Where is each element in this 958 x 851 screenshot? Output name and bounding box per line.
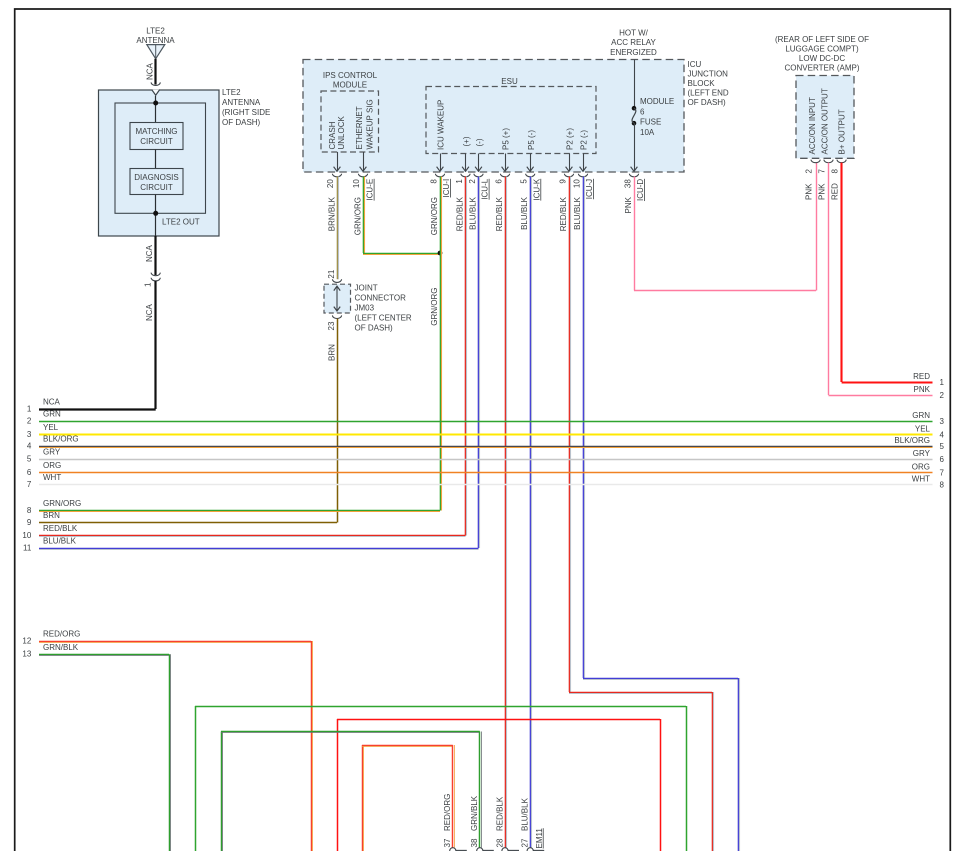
wire 13 GRN/BLK bus [39,654,171,851]
svg-text:7: 7 [940,469,945,478]
svg-text:9: 9 [27,518,32,527]
svg-text:NCA: NCA [145,303,154,321]
JM03 internal bus arrow [334,286,340,311]
svg-text:13: 13 [22,650,31,659]
fuse MODULE 6 FUSE 10A [632,106,637,126]
wire GRN/BLK bridge to EM11 pin 38 [221,732,482,851]
svg-text:(+): (+) [462,136,471,146]
pin numbers converter [805,169,840,174]
node junction bottom [153,211,158,216]
labels converter pins [808,88,847,154]
svg-text:NCA: NCA [145,244,154,262]
connector hook pin 9 [564,174,573,177]
label JM03 [355,284,412,333]
EM11 pin 37 terminal [450,848,467,851]
wire 5 GRY bus [39,459,933,461]
wire GRN/ORG pin 10 to junction [363,177,440,255]
pin exit arrow ICU wakeup [437,154,444,172]
svg-text:RED/BLK: RED/BLK [495,796,504,831]
svg-text:RED/ORG: RED/ORG [443,794,452,831]
wire 11 BLU/BLK bus [39,549,479,550]
label hot w acc relay energized [610,28,657,57]
wire BLU/BLK pin 2 to bus [479,177,480,549]
svg-text:7: 7 [27,480,32,489]
svg-text:ICU WAKEUP: ICU WAKEUP [437,100,446,150]
svg-text:8: 8 [430,179,439,184]
svg-text:DIAGNOSIS: DIAGNOSIS [134,173,178,182]
svg-text:ICU-E: ICU-E [366,179,375,201]
svg-text:9: 9 [559,179,568,184]
svg-text:GRN/ORG: GRN/ORG [430,197,439,235]
connector hook converter pin 7 [824,160,833,163]
label LTE2 antenna location [222,88,270,127]
svg-text:YEL: YEL [915,425,931,434]
connector hook pin 8 [435,174,444,177]
wire internal antenna top [155,96,157,123]
svg-text:11: 11 [23,543,32,552]
svg-text:38: 38 [470,838,479,847]
svg-text:ORG: ORG [912,463,930,472]
svg-text:B+ OUTPUT: B+ OUTPUT [838,109,847,154]
wire fuse feed [634,60,636,109]
svg-text:WHT: WHT [912,475,930,484]
svg-text:ICU-J: ICU-J [585,179,594,199]
svg-text:12: 12 [22,636,31,645]
connector hook pin 5 [526,174,535,177]
connector hook pin 38 [629,174,638,177]
svg-text:ANTENNA: ANTENNA [222,98,261,107]
svg-text:PNK: PNK [805,183,814,200]
pin exit arrow ethernet [360,152,367,171]
svg-text:CONNECTOR: CONNECTOR [355,294,407,303]
module LTE2 antenna inner box [115,103,206,213]
svg-text:10: 10 [573,179,582,188]
svg-text:6: 6 [495,179,504,184]
svg-text:1: 1 [27,404,32,413]
svg-text:P5 (-): P5 (-) [527,130,536,150]
svg-text:ANTENNA: ANTENNA [136,36,175,45]
connector hook antenna lead [151,82,160,85]
svg-text:6: 6 [640,107,645,116]
svg-text:GRN/ORG: GRN/ORG [430,288,439,326]
node junction GRN/ORG [438,251,443,256]
connector hook pin 6 [500,174,509,177]
svg-text:GRN/BLK: GRN/BLK [43,643,79,652]
pin exit arrow P2 plus [566,154,573,172]
antenna LTE2 title [136,27,175,46]
svg-text:LOW DC-DC: LOW DC-DC [799,54,845,63]
svg-text:3: 3 [27,430,32,439]
wire colour labels below ICU box [328,196,634,235]
svg-text:5: 5 [940,442,945,451]
svg-text:GRN/BLK: GRN/BLK [470,795,479,831]
svg-text:3: 3 [940,417,945,426]
svg-text:10A: 10A [640,128,655,137]
svg-text:IPS CONTROL: IPS CONTROL [323,71,378,80]
label ICU junction block [688,60,729,107]
svg-text:BLOCK: BLOCK [688,79,716,88]
svg-text:BRN: BRN [43,511,60,520]
label pin ethernet wakeup sig [355,99,374,149]
wire NCA below box [154,236,156,275]
svg-text:PNK: PNK [624,196,633,213]
wire RED/BLK pin 9 off page [569,177,714,851]
connector hook JM03 pin 21 [332,279,341,282]
svg-text:OF DASH): OF DASH) [688,98,727,107]
svg-text:ACC RELAY: ACC RELAY [611,38,656,47]
svg-text:GRN: GRN [43,410,61,419]
wire NCA antenna lead [154,59,156,85]
svg-text:WAKEUP SIG: WAKEUP SIG [365,99,374,149]
module ICU junction block [303,60,684,173]
svg-text:4: 4 [940,431,945,440]
svg-text:ESU: ESU [501,77,518,86]
svg-text:MATCHING: MATCHING [135,127,177,136]
svg-text:CONVERTER (AMP): CONVERTER (AMP) [785,64,860,73]
wire 9 BRN bus [39,522,337,524]
svg-text:BLK/ORG: BLK/ORG [43,435,79,444]
svg-text:RED: RED [913,372,930,381]
svg-text:JUNCTION: JUNCTION [688,70,729,79]
EM11 pin 28 terminal [502,848,519,851]
svg-text:10: 10 [352,179,361,188]
wire colour labels converter [805,183,840,200]
svg-text:BLU/BLK: BLU/BLK [521,797,530,831]
label matching circuit [135,127,177,146]
wire 1 NCA bus [39,408,156,410]
svg-text:8: 8 [831,169,840,174]
svg-text:(REAR OF LEFT SIDE OF: (REAR OF LEFT SIDE OF [775,35,869,44]
svg-text:RED/BLK: RED/BLK [495,196,504,231]
wire GRN/ORG pin 8 to bus [441,177,442,511]
pin exit arrow P5 plus [502,154,509,172]
svg-text:OF DASH): OF DASH) [222,118,261,127]
svg-text:(LEFT CENTER: (LEFT CENTER [355,314,412,323]
svg-text:ACC/ON INPUT: ACC/ON INPUT [808,97,817,154]
connector C1 lower half [151,278,160,281]
svg-text:HOT W/: HOT W/ [619,28,649,37]
wire RED B+ output [842,163,933,383]
svg-text:MODULE: MODULE [333,80,367,89]
svg-text:ORG: ORG [43,461,61,470]
connector hook converter pin 8 [837,160,846,163]
svg-text:8: 8 [940,481,945,490]
svg-text:NCA: NCA [43,398,61,407]
svg-text:ETHERNET: ETHERNET [355,106,364,149]
module ESU inner box [426,87,596,154]
svg-text:RED/BLK: RED/BLK [456,196,465,231]
svg-text:EM11: EM11 [535,828,544,849]
svg-text:5: 5 [520,179,529,184]
EM11 pin 38 terminal [477,848,494,851]
svg-text:4: 4 [27,441,32,450]
svg-text:ICU-L: ICU-L [481,178,490,199]
wire BLU/BLK pin 5 to EM11 pin 27 [531,177,532,848]
svg-text:ICU-D: ICU-D [636,179,645,201]
svg-text:LTE2: LTE2 [222,88,241,97]
svg-text:P5 (+): P5 (+) [501,128,510,150]
svg-text:GRN/ORG: GRN/ORG [43,499,81,508]
wire RED/BLK pin 6 to EM11 pin 28 [506,177,507,848]
svg-text:RED/BLK: RED/BLK [559,196,568,231]
svg-text:(LEFT END: (LEFT END [688,89,729,98]
svg-text:BRN/BLK: BRN/BLK [328,196,337,231]
wire RED bridge off page [337,719,661,851]
svg-text:6: 6 [27,468,32,477]
connector hook converter pin 2 [811,160,820,163]
wire 7 WHT bus [39,484,933,486]
svg-text:23: 23 [327,321,336,330]
svg-text:ICU-I: ICU-I [442,179,451,198]
svg-text:OF DASH): OF DASH) [355,324,394,333]
svg-text:2: 2 [805,169,814,174]
svg-text:PNK: PNK [818,183,827,200]
wire BRN/BLK pin 20 to JM03 [338,177,339,280]
svg-text:ICU: ICU [688,60,702,69]
joint connector JM03 [324,284,351,313]
svg-text:JM03: JM03 [355,304,375,313]
svg-text:2: 2 [468,179,477,184]
wire PNK acc on output [829,163,933,396]
wire internal below diagnosis [155,195,157,237]
svg-text:10: 10 [22,531,31,540]
svg-text:6: 6 [940,455,945,464]
svg-text:1: 1 [455,179,464,184]
label DC-DC converter title [775,35,869,73]
wire 6 ORG bus [39,472,933,474]
svg-text:8: 8 [27,506,32,515]
wire PNK fuse to converter [634,163,817,291]
connector C1 upper half [151,273,160,276]
svg-text:JOINT: JOINT [355,284,378,293]
wire 10 RED/BLK bus [39,536,466,537]
svg-text:P2 (+): P2 (+) [565,128,574,150]
svg-text:2: 2 [27,416,32,425]
svg-text:(RIGHT SIDE: (RIGHT SIDE [222,108,270,117]
svg-text:ACC/ON OUTPUT: ACC/ON OUTPUT [820,88,829,154]
svg-text:LTE2: LTE2 [146,27,165,36]
wire 8 GRN/ORG bus [39,511,440,512]
wire BLU/BLK pin 10 off page [583,177,740,851]
pin numbers EM11 [443,838,530,847]
label pin crash unlock [328,115,346,149]
pin exit arrow plus [462,154,469,172]
svg-text:27: 27 [521,838,530,847]
svg-text:UNLOCK: UNLOCK [337,115,346,149]
svg-text:1: 1 [940,378,945,387]
svg-text:CIRCUIT: CIRCUIT [140,183,173,192]
svg-text:CRASH: CRASH [328,121,337,149]
svg-text:LTE2 OUT: LTE2 OUT [162,218,200,227]
connector hook JM03 pin 23 [332,315,341,318]
svg-text:GRN: GRN [912,411,930,420]
wire BRN JM03 to bus [337,319,339,523]
svg-text:BRN: BRN [328,344,337,361]
svg-text:ENERGIZED: ENERGIZED [610,48,657,57]
svg-text:RED: RED [831,183,840,200]
svg-text:BLU/BLK: BLU/BLK [520,196,529,230]
connector hook pin 10 [358,174,367,177]
svg-text:YEL: YEL [43,423,59,432]
wire GRN bridge off page [195,706,687,851]
wire 3 YEL bus [39,434,933,436]
svg-text:BLK/ORG: BLK/ORG [894,436,930,445]
svg-text:CIRCUIT: CIRCUIT [140,137,173,146]
svg-text:RED/BLK: RED/BLK [43,524,78,533]
svg-text:5: 5 [27,454,32,463]
svg-text:GRY: GRY [43,448,61,457]
label fuse [640,97,674,137]
module IPS control inner box [321,91,379,152]
svg-text:PNK: PNK [914,385,931,394]
pin exit arrow P2 minus [580,154,587,172]
pin numbers below ICU box [326,179,633,188]
connector hook pin 20 [332,174,341,177]
svg-text:LUGGAGE COMPT): LUGGAGE COMPT) [785,45,859,54]
svg-text:FUSE: FUSE [640,118,661,127]
svg-text:BLU/BLK: BLU/BLK [469,196,478,230]
node junction top [153,101,158,106]
svg-text:RED/ORG: RED/ORG [43,630,80,639]
module low DC-DC converter [796,76,854,159]
svg-text:38: 38 [624,179,633,188]
block diagnosis circuit [130,169,183,195]
svg-text:P2 (-): P2 (-) [579,130,588,150]
svg-text:BLU/BLK: BLU/BLK [573,196,582,230]
svg-text:GRN/ORG: GRN/ORG [354,197,363,235]
pin exit arrow crash unlock [334,152,341,171]
connector hook pin 10 P2 [578,174,587,177]
svg-text:2: 2 [940,391,945,400]
svg-text:WHT: WHT [43,473,61,482]
antenna LTE2 symbol [147,45,165,59]
pin exit arrow fuse [631,123,638,171]
label diagnosis circuit [134,173,178,192]
wire 12 RED/ORG bus [39,641,313,851]
svg-text:(-): (-) [475,138,484,146]
svg-text:20: 20 [326,179,335,188]
wire NCA to bus [154,281,156,409]
label IPS control module [323,71,378,90]
pin exit arrow minus [475,154,482,172]
svg-text:NCA: NCA [145,62,154,80]
wire 2 GRN bus [39,421,933,423]
pin exit arrow P5 minus [527,154,534,172]
svg-text:1: 1 [144,282,153,287]
svg-text:21: 21 [327,269,336,278]
svg-text:7: 7 [818,169,827,174]
connector hook pin 1 [461,174,470,177]
wire colour labels EM11 [443,794,530,831]
connector hook pin 2 [474,174,483,177]
wire RED/ORG bridge to EM11 pin 37 [362,745,455,851]
wire 4 BLK/ORG bus [39,447,933,448]
svg-text:GRY: GRY [913,449,931,458]
wire RED/BLK pin 1 to bus [466,177,467,536]
node LTE2 box entry chevron [152,90,160,96]
wire internal between circuits [155,150,157,169]
svg-text:MODULE: MODULE [640,97,674,106]
svg-text:37: 37 [443,838,452,847]
svg-text:BLU/BLK: BLU/BLK [43,537,77,546]
svg-text:ICU-K: ICU-K [532,178,541,200]
block matching circuit [130,123,183,150]
svg-text:28: 28 [495,838,504,847]
EM11 pin 27 terminal [527,848,544,851]
module LTE2 antenna box [99,90,220,236]
